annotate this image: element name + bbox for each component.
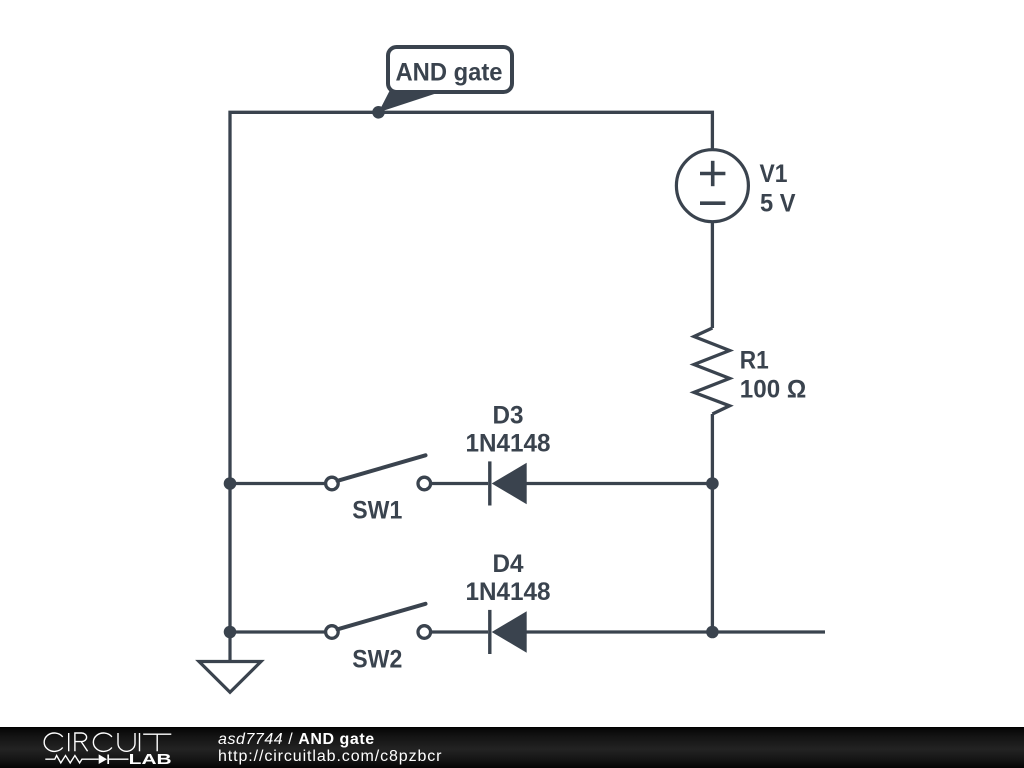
wire: D3 to right bus bbox=[527, 482, 713, 485]
wire: D4 to right bus bbox=[527, 630, 713, 633]
svg-text:1N4148: 1N4148 bbox=[466, 578, 551, 606]
logo diode bbox=[99, 754, 129, 764]
logo letter U bbox=[118, 733, 135, 751]
logo letter C bbox=[93, 733, 112, 751]
label V1 5 V bbox=[760, 160, 796, 217]
node: top wire junction under bubble bbox=[372, 106, 385, 119]
svg-text:SW2: SW2 bbox=[352, 646, 402, 674]
label R1 100 Ω bbox=[740, 346, 807, 403]
annotation bubble "AND gate" with tail bbox=[379, 47, 513, 112]
logo resistor bbox=[45, 756, 98, 763]
ground bbox=[199, 632, 261, 692]
wire: R1 bottom to row1 node bbox=[711, 414, 714, 484]
node: row1 left bbox=[224, 477, 237, 490]
diode D4 bbox=[490, 610, 527, 654]
wire: SW2 to D4 bbox=[430, 630, 488, 633]
svg-text:D4: D4 bbox=[493, 550, 524, 578]
svg-text:1N4148: 1N4148 bbox=[466, 430, 551, 458]
switch SW2 bbox=[326, 604, 431, 639]
svg-text:SW1: SW1 bbox=[352, 497, 402, 525]
svg-text:100 Ω: 100 Ω bbox=[740, 376, 807, 404]
label D4 1N4148 bbox=[466, 550, 551, 606]
wire: row1 node down to row2 node bbox=[711, 484, 714, 633]
node: row2 right bbox=[706, 626, 719, 639]
node: row1 right bbox=[706, 477, 719, 490]
logo letter R bbox=[75, 733, 88, 751]
svg-text:D3: D3 bbox=[493, 402, 524, 430]
voltage source V1 bbox=[676, 150, 748, 222]
wire: row1 left lead to SW1 bbox=[230, 482, 326, 485]
svg-text:LAB: LAB bbox=[129, 752, 172, 768]
wire: left bus, top wire and V1 top lead bbox=[230, 112, 712, 632]
wire: V1 bottom to R1 top bbox=[711, 222, 714, 329]
node: row2 left (ground) bbox=[224, 626, 237, 639]
svg-text:AND gate: AND gate bbox=[396, 59, 503, 87]
CircuitLab logo bbox=[0, 727, 200, 768]
label SW2 bbox=[352, 646, 402, 674]
wire: row2 output stub to the right bbox=[712, 630, 825, 633]
label D3 1N4148 bbox=[466, 402, 551, 458]
svg-text:5 V: 5 V bbox=[760, 189, 796, 217]
logo letter I bbox=[68, 733, 70, 751]
diode D3 bbox=[490, 461, 527, 505]
resistor R1 bbox=[694, 328, 730, 414]
footer caption text bbox=[218, 732, 442, 765]
label SW1 bbox=[352, 497, 402, 525]
switch SW1 bbox=[326, 455, 431, 490]
footer black bar bbox=[0, 727, 1024, 768]
svg-text:V1: V1 bbox=[760, 160, 788, 188]
logo letter C bbox=[44, 733, 63, 751]
svg-text:R1: R1 bbox=[740, 346, 769, 374]
logo letter I bbox=[139, 733, 141, 751]
wire: SW1 to D3 bbox=[430, 482, 488, 485]
logo letter T bbox=[143, 734, 171, 751]
wire: row2 left lead to SW2 bbox=[230, 630, 326, 633]
